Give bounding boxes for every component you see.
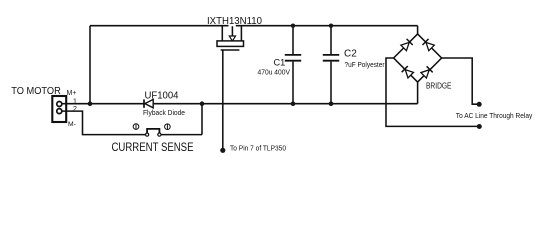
svg-text:?uF Polyester: ?uF Polyester — [345, 60, 386, 69]
node: gate terminal dot — [220, 148, 225, 153]
node: junction dot motor rail / sense return — [200, 101, 205, 106]
test point marker right — [165, 124, 171, 130]
node: AC terminal dot upper — [477, 102, 482, 107]
wire: bridge top vertex riser to top rail — [417, 26, 419, 34]
svg-text:To AC Line Through Relay: To AC Line Through Relay — [456, 111, 533, 120]
current sense shunt jumper with open terminals — [146, 129, 161, 136]
wire: gate lead down to TLP350 — [222, 50, 224, 150]
wire: pin 2 to current sense shunt — [62, 111, 146, 135]
wire: top rail right segment (MOSFET drain to bridge +) — [236, 25, 418, 27]
svg-text:UF1004: UF1004 — [145, 91, 179, 102]
node: C1 bottom rail dot — [291, 101, 296, 106]
node: AC terminal dot lower — [477, 124, 482, 129]
node: C2 bottom rail dot — [329, 101, 334, 106]
svg-text:TO MOTOR: TO MOTOR — [11, 86, 61, 97]
transistor Q1 IXTH13N110 power MOSFET — [217, 26, 244, 50]
wire: top rail left segment (MOSFET source side) — [90, 25, 229, 27]
wire: bridge left AC lead to relay terminal — [386, 58, 477, 126]
wire: bridge right AC lead to relay terminal — [442, 58, 477, 104]
wire: current sense to negative rail junction — [161, 104, 202, 135]
wire: negative/motor rail (pin 1 across to bridge bottom corner) — [62, 103, 418, 105]
capacitor C2 polyester — [323, 26, 339, 104]
bridge diode top-left — [401, 39, 413, 51]
svg-text:470u 400V: 470u 400V — [258, 68, 291, 77]
diode D1 UF1004 flyback — [144, 99, 153, 107]
svg-text:IXTH13N110: IXTH13N110 — [207, 16, 262, 27]
wire: left vertical from top rail down to motor rail — [89, 26, 91, 104]
svg-text:BRIDGE: BRIDGE — [426, 80, 452, 90]
capacitor C1 470u 400V — [285, 26, 301, 104]
svg-text:To Pin 7 of TLP350: To Pin 7 of TLP350 — [230, 144, 286, 153]
svg-text:CURRENT SENSE: CURRENT SENSE — [112, 142, 194, 154]
wire: bridge bottom vertex drop to rail — [417, 82, 419, 104]
bridge diode top-right — [422, 39, 434, 51]
bridge diode bottom-left — [402, 66, 414, 78]
node: junction dot motor rail / left vertical / pin 1 — [88, 101, 93, 106]
svg-text:C1: C1 — [274, 58, 286, 68]
node: C1 top rail dot — [291, 24, 295, 28]
svg-text:1: 1 — [73, 98, 77, 105]
svg-text:Flyback Diode: Flyback Diode — [143, 108, 185, 117]
svg-text:2: 2 — [73, 106, 77, 113]
svg-text:M-: M- — [68, 121, 76, 128]
bridge diode bottom-right — [421, 66, 433, 78]
bridge rectifier diamond — [394, 34, 442, 82]
svg-text:M+: M+ — [67, 90, 77, 97]
connector J1 TO MOTOR (2-pin) — [52, 96, 66, 122]
node: C2 top rail dot — [329, 24, 333, 28]
svg-text:C2: C2 — [344, 49, 357, 60]
test point marker left — [133, 124, 139, 130]
